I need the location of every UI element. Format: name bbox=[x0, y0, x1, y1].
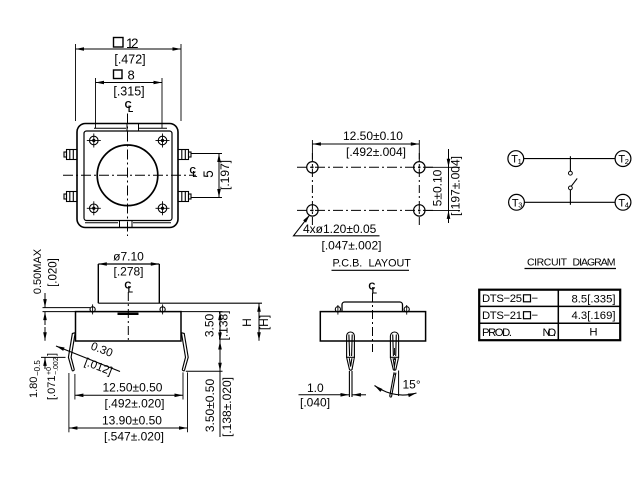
side view right pin bbox=[390, 332, 399, 397]
svg-text:8.5[.335]: 8.5[.335] bbox=[572, 293, 616, 305]
svg-text:5: 5 bbox=[201, 170, 216, 178]
body top right extension line bbox=[181, 311, 223, 313]
svg-text:[.472]: [.472] bbox=[114, 53, 145, 67]
svg-text:[.071: [.071 bbox=[46, 376, 58, 400]
CIRCUIT DIAGRAM title bbox=[525, 256, 617, 268]
top view cover edge details (top) bbox=[94, 124, 167, 131]
pin tip right extension line bbox=[186, 370, 223, 372]
switch upper lead wire bbox=[569, 156, 571, 171]
dimension 12.50±0.10 line bbox=[312, 140, 419, 159]
dimension H line bbox=[258, 303, 260, 341]
side view right pin centerline bbox=[393, 348, 395, 378]
table row 3: PROD. NO. H bbox=[482, 327, 598, 339]
svg-text:DTS−21: DTS−21 bbox=[482, 310, 522, 322]
left pin 1 (top view) bbox=[64, 150, 77, 160]
terminal T1 bbox=[508, 151, 524, 167]
dimension 12mm square: label bbox=[114, 36, 139, 51]
corner rivet top-right bbox=[156, 134, 170, 148]
svg-text:4: 4 bbox=[625, 201, 629, 210]
svg-text:−: − bbox=[532, 293, 539, 305]
right pin 2 (top view) bbox=[178, 192, 191, 202]
rivet right (front view) bbox=[160, 304, 165, 314]
left pin 2 (top view) bbox=[64, 192, 77, 202]
P.C.B. LAYOUT title bbox=[332, 258, 412, 271]
side view flange rivet right bbox=[404, 305, 409, 315]
stem (button) with ø7.10 dimension arrows bbox=[98, 264, 159, 303]
dimension 8mm line bbox=[96, 78, 163, 128]
dimension 1.80-0.5 label (rotated) bbox=[28, 360, 42, 398]
dimension 13.90±0.50 line bbox=[69, 372, 188, 432]
side view body bbox=[320, 312, 425, 341]
svg-text:[.020]: [.020] bbox=[48, 258, 60, 287]
svg-text:0.50MAX: 0.50MAX bbox=[32, 248, 44, 294]
dimension [.071 +0/-.002] label (rotated) bbox=[46, 353, 60, 400]
terminal T4 bbox=[615, 194, 631, 210]
top view horizontal centerline bbox=[63, 174, 196, 176]
svg-text:[.315]: [.315] bbox=[113, 85, 144, 99]
switch lever bbox=[571, 178, 577, 186]
side view left pin bbox=[347, 332, 355, 397]
dimension 12mm line bbox=[76, 44, 182, 121]
corner rivet bottom-right bbox=[156, 201, 170, 215]
svg-text:4.3[.169]: 4.3[.169] bbox=[572, 310, 616, 322]
svg-text:3.50: 3.50 bbox=[203, 313, 217, 337]
pcb hole top-right bbox=[414, 162, 425, 173]
table frame bbox=[479, 290, 620, 341]
svg-text:[.547±.020]: [.547±.020] bbox=[104, 429, 164, 443]
stem hole thick mark bbox=[118, 313, 139, 315]
dimension 8mm square: label bbox=[114, 68, 135, 83]
svg-text:[.278]: [.278] bbox=[113, 265, 143, 279]
wire T1-T2 bbox=[524, 158, 615, 160]
svg-text:13.90±0.50: 13.90±0.50 bbox=[102, 413, 162, 427]
svg-text:[.138±.020]: [.138±.020] bbox=[220, 377, 234, 437]
push button circle bbox=[97, 145, 158, 206]
left bent pin (front view) bbox=[68, 333, 75, 371]
dimension 5mm (pin spacing) right side bbox=[192, 154, 223, 198]
switch contact lower bbox=[569, 186, 573, 190]
svg-text:[.197±.004]: [.197±.004] bbox=[449, 156, 463, 216]
front view vertical centerline bbox=[127, 292, 129, 341]
body top left extension line bbox=[43, 311, 76, 313]
svg-text:H: H bbox=[240, 318, 254, 327]
svg-text:4xø1.20±0.05: 4xø1.20±0.05 bbox=[303, 222, 377, 236]
top view vertical centerline bbox=[127, 114, 129, 237]
svg-text:H: H bbox=[589, 327, 597, 339]
right bent pin (front view) bbox=[181, 333, 188, 371]
centerline symbol above top view bbox=[125, 100, 134, 114]
dimension 3.50±0.50 tail line bbox=[219, 371, 221, 437]
svg-text:3.50±0.50: 3.50±0.50 bbox=[203, 379, 217, 433]
dimension 1.0 line and arrows bbox=[299, 394, 367, 396]
svg-text:8: 8 bbox=[128, 68, 135, 83]
centerline symbol right of top view bbox=[189, 165, 197, 179]
15 degree swing arc bbox=[375, 386, 417, 396]
svg-text:[.047±.002]: [.047±.002] bbox=[322, 239, 382, 253]
pcb centerline horizontal top row bbox=[297, 166, 434, 168]
corner rivet top-left bbox=[87, 134, 101, 148]
centerline symbol side view bbox=[368, 282, 377, 296]
0.50MAX upper extension line bbox=[43, 307, 91, 309]
svg-text:[H]: [H] bbox=[257, 315, 271, 330]
switch body (front view) bbox=[76, 312, 182, 341]
table row 2: DTS-21 bbox=[482, 310, 615, 322]
dimension 1.80 arrows bbox=[44, 330, 46, 369]
svg-text:DTS−25: DTS−25 bbox=[482, 293, 522, 305]
switch contact upper bbox=[569, 171, 573, 175]
rivet left (front view) bbox=[90, 304, 95, 314]
pcb centerline vertical right column bbox=[418, 153, 420, 226]
svg-text:−: − bbox=[532, 310, 539, 322]
svg-text:2: 2 bbox=[625, 157, 629, 166]
top view inner cover square bbox=[84, 131, 172, 221]
svg-text:5±0.10: 5±0.10 bbox=[431, 169, 445, 206]
svg-text:12.50±0.10: 12.50±0.10 bbox=[343, 129, 403, 143]
svg-text:−0.5: −0.5 bbox=[33, 360, 42, 376]
pcb hole size leader bbox=[294, 215, 380, 236]
svg-text:CIRCUIT: CIRCUIT bbox=[527, 256, 568, 268]
side view vertical centerline bbox=[372, 293, 374, 352]
corner rivet bottom-left bbox=[87, 201, 101, 215]
svg-text:1.0: 1.0 bbox=[307, 381, 324, 395]
svg-text:[.492±.004]: [.492±.004] bbox=[346, 145, 406, 159]
svg-text:[.138]: [.138] bbox=[217, 310, 231, 340]
wire T3-T4 bbox=[524, 201, 615, 203]
switch lower lead wire bbox=[569, 190, 571, 205]
svg-text:ø7.10: ø7.10 bbox=[113, 250, 144, 264]
dimension 3.50±0.50 line bbox=[219, 341, 221, 371]
dimension 5±0.10 (pcb) bbox=[426, 149, 460, 223]
terminal T3 bbox=[509, 194, 525, 210]
svg-text:[.492±.020]: [.492±.020] bbox=[105, 397, 165, 411]
0.30 leader line bbox=[56, 346, 120, 372]
side view flange bbox=[342, 302, 403, 312]
pcb hole bottom-right bbox=[414, 205, 425, 216]
svg-text:PROD.: PROD. bbox=[482, 327, 512, 339]
dimension 12.50±0.50 line bbox=[75, 372, 183, 399]
flange top line (extends right for H dimension) bbox=[98, 302, 262, 304]
terminal T2 bbox=[615, 151, 631, 167]
side view flange rivet left bbox=[335, 305, 340, 315]
pcb hole bottom-left bbox=[307, 205, 318, 216]
pcb centerline horizontal bottom row bbox=[297, 209, 434, 211]
svg-text:[.040]: [.040] bbox=[300, 396, 330, 410]
svg-text:−.002: −.002 bbox=[53, 357, 60, 375]
centerline symbol front view bbox=[124, 281, 133, 295]
pcb centerline vertical left column bbox=[311, 153, 313, 226]
right pin 1 (top view) bbox=[178, 150, 191, 160]
top view cover edge details (bottom) bbox=[85, 221, 171, 228]
svg-text:NO.: NO. bbox=[543, 327, 557, 339]
svg-text:]: ] bbox=[46, 353, 58, 356]
svg-text:+0: +0 bbox=[46, 367, 53, 375]
1.80 lower extension line bbox=[41, 356, 66, 358]
dimension 3.50 line (body height) bbox=[219, 312, 221, 341]
pcb hole top-left bbox=[307, 162, 318, 173]
svg-text:1.80: 1.80 bbox=[28, 377, 40, 398]
15 degree reference vertical bbox=[398, 371, 400, 397]
svg-text:[.197]: [.197] bbox=[218, 160, 232, 190]
svg-text:12.50±0.50: 12.50±0.50 bbox=[103, 381, 163, 395]
dimension 0.50MAX arrows bbox=[44, 293, 46, 338]
svg-text:1: 1 bbox=[518, 157, 522, 166]
svg-text:DIAGRAM: DIAGRAM bbox=[573, 256, 616, 268]
top view outer body square bbox=[77, 124, 178, 228]
svg-text:3: 3 bbox=[518, 201, 522, 210]
svg-text:LAYOUT: LAYOUT bbox=[369, 258, 412, 270]
svg-text:P.C.B.: P.C.B. bbox=[333, 258, 363, 270]
svg-text:15°: 15° bbox=[403, 378, 421, 392]
table row 1: DTS-25 bbox=[482, 293, 615, 305]
